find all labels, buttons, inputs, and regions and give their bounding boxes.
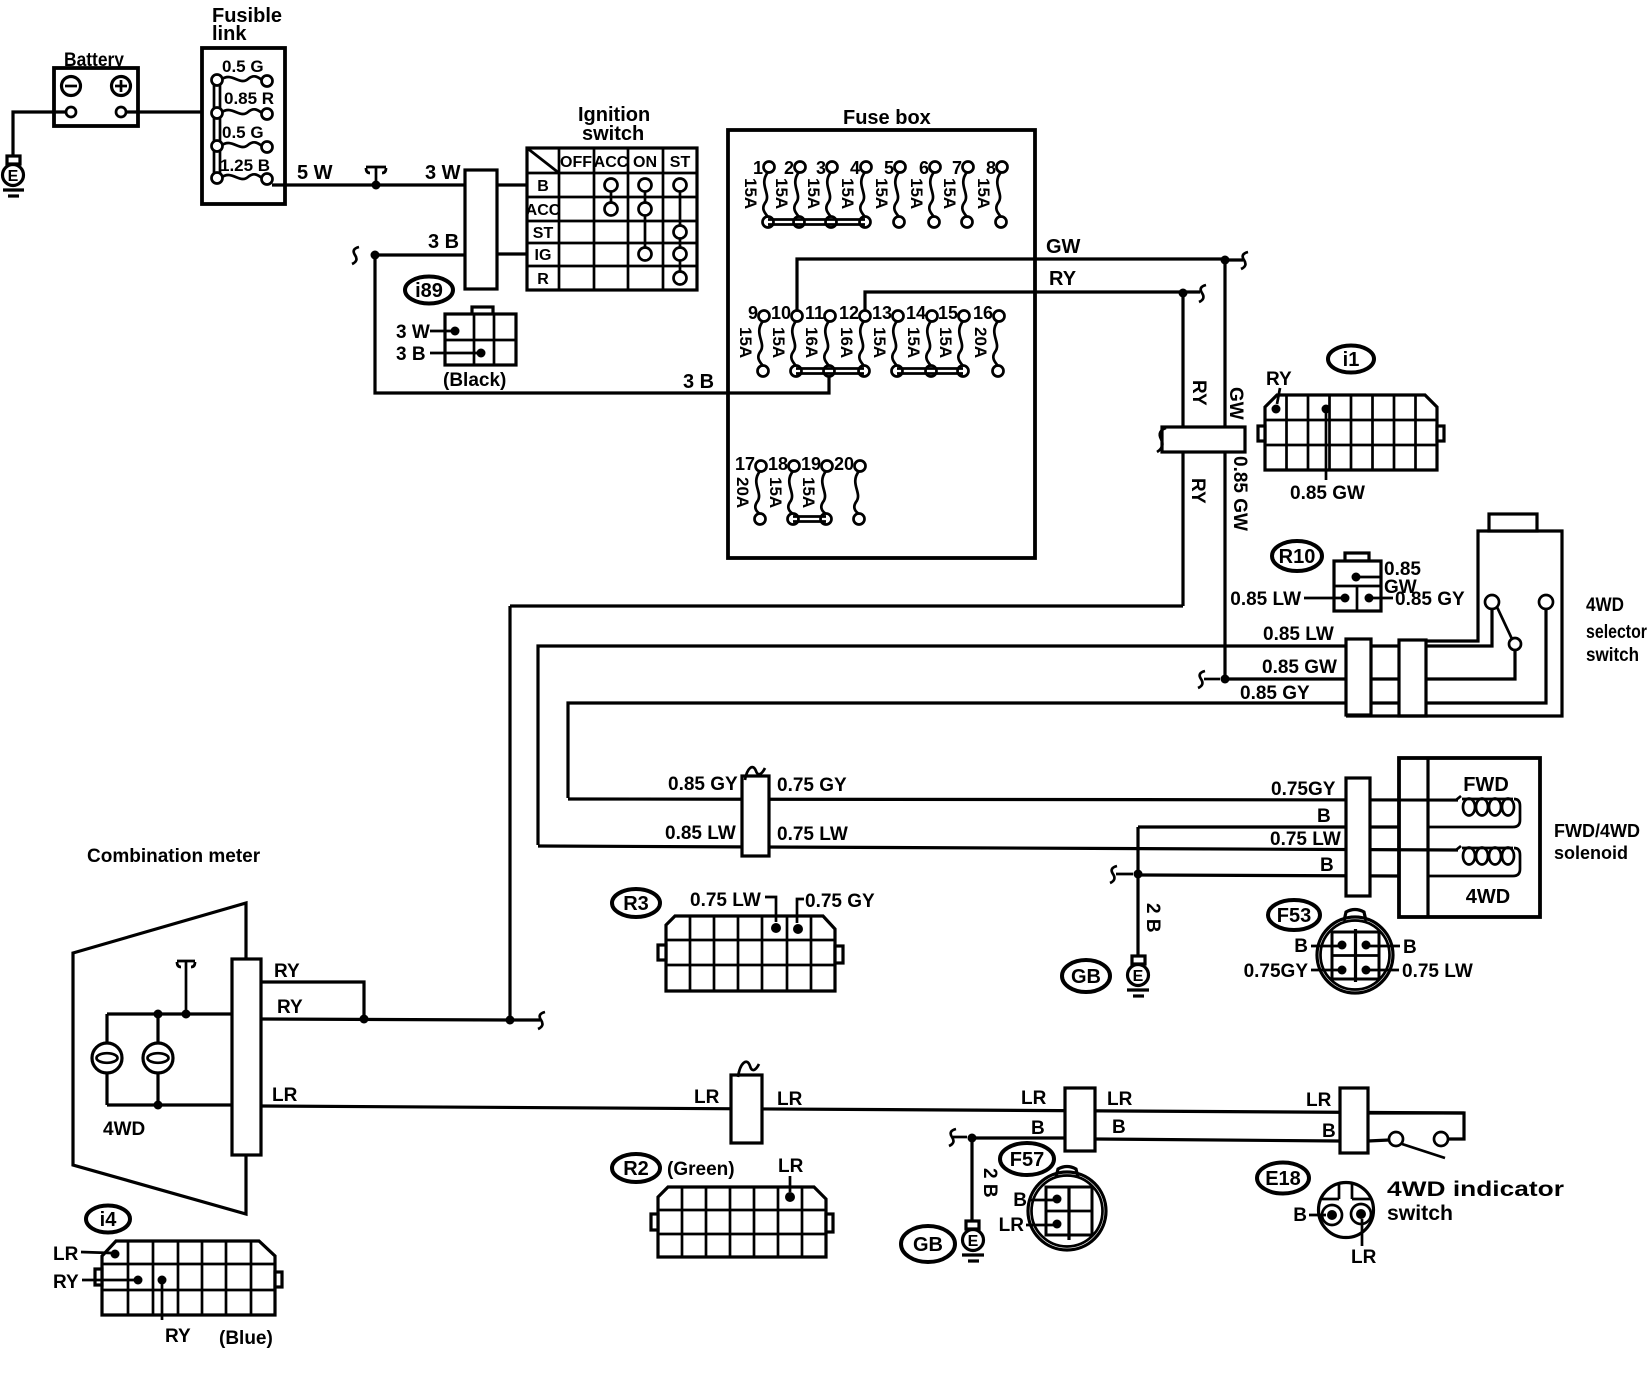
battery (54, 50, 138, 126)
svg-text:11: 11 (805, 303, 824, 323)
fuse 11 16A (802, 303, 836, 377)
ignition switch ACC-position contact chain (605, 179, 618, 216)
meter lamp top feed wire (107, 1012, 232, 1015)
FWD/4WD solenoid body (1399, 758, 1540, 917)
svg-text:R: R (537, 271, 549, 288)
svg-text:link: link (212, 23, 247, 45)
svg-text:GB: GB (913, 1234, 943, 1256)
4WD indicator lamp 2 (143, 1010, 173, 1110)
svg-text:15A: 15A (766, 477, 785, 508)
in-line connector on solenoid wires (1346, 778, 1370, 896)
in-line connector on LR wire (731, 1062, 762, 1143)
svg-text:i89: i89 (415, 280, 443, 302)
fuse 14 15A (904, 303, 938, 377)
svg-text:0.85 LW: 0.85 LW (1230, 589, 1301, 610)
wire LR from E18 connector to indicator switch (1368, 1113, 1464, 1139)
svg-text:(Blue): (Blue) (219, 1328, 273, 1349)
E18 pin B (1293, 1205, 1337, 1226)
in-line connector on LR/B wires (E18 area) (1340, 1088, 1368, 1153)
fuse 17 20A (733, 454, 767, 525)
wire RY from fuse 12 to right side (865, 292, 1183, 311)
svg-text:20A: 20A (971, 327, 990, 358)
svg-text:ST: ST (670, 154, 691, 171)
svg-text:4WD: 4WD (103, 1119, 145, 1140)
svg-text:ACC: ACC (594, 154, 629, 171)
node: RY corner junction (1179, 289, 1188, 298)
node: B ground junction with splice mark (1110, 866, 1143, 883)
svg-text:15A: 15A (804, 178, 823, 209)
svg-text:0.85 GY: 0.85 GY (668, 774, 738, 795)
svg-text:R10: R10 (1279, 546, 1316, 568)
svg-text:16A: 16A (802, 327, 821, 358)
wire GW from fuse 10 to right side (797, 259, 1225, 311)
svg-text:2: 2 (784, 158, 794, 178)
svg-text:FWD/4WD: FWD/4WD (1554, 821, 1640, 841)
connector R2 (612, 1154, 660, 1182)
F57 connector face (1028, 1167, 1106, 1251)
svg-text:14: 14 (906, 303, 926, 323)
svg-text:OFF: OFF (560, 154, 592, 171)
svg-text:R2: R2 (623, 1158, 649, 1180)
i1 pin RY (1266, 369, 1292, 414)
svg-text:20A: 20A (733, 477, 752, 508)
FWD solenoid coil (1428, 796, 1520, 827)
meter connector bar (232, 959, 261, 1155)
svg-text:0.85 GY: 0.85 GY (1240, 683, 1310, 704)
svg-text:B: B (1322, 1121, 1336, 1142)
R2 connector grid (651, 1187, 833, 1257)
F53 connector face (1317, 910, 1393, 994)
svg-text:i1: i1 (1343, 349, 1360, 371)
svg-text:FWD: FWD (1463, 774, 1509, 796)
wire B (lower solenoid return) (1138, 875, 1399, 876)
svg-text:solenoid: solenoid (1554, 843, 1628, 863)
fuse 20 (834, 454, 866, 525)
T-tap symbol on 5W/3W wire (366, 167, 386, 190)
svg-text:R3: R3 (623, 893, 649, 915)
svg-text:8: 8 (986, 158, 996, 178)
svg-text:LR: LR (778, 1156, 804, 1177)
ignition switch ON-position contact chain (639, 179, 652, 261)
connector R10 (1272, 541, 1381, 611)
in-line connector on LR/B wires (F57 area) (1065, 1088, 1095, 1151)
svg-text:13: 13 (872, 303, 892, 323)
i4 pin LR (53, 1244, 120, 1265)
wire 3B long run to fuse box (375, 255, 829, 393)
connector GB (F57 ground) (901, 1226, 955, 1262)
svg-text:ST: ST (533, 225, 554, 242)
fuse 19 15A (799, 454, 833, 525)
4WD indicator switch lever (1402, 1144, 1445, 1158)
svg-text:B: B (1112, 1117, 1126, 1138)
svg-text:E: E (8, 168, 19, 185)
svg-text:15A: 15A (838, 178, 857, 209)
wire: battery positive to fusible link (126, 110, 213, 113)
4WD selector switch fixed contact (GY side) (1539, 595, 1553, 609)
svg-text:19: 19 (801, 454, 821, 474)
ground E (F57 2B) (962, 1221, 984, 1261)
svg-text:0.75 LW: 0.75 LW (690, 890, 761, 911)
4WD selector switch lever (1497, 607, 1521, 650)
svg-text:B: B (1317, 806, 1331, 827)
svg-text:1.25 B: 1.25 B (220, 156, 270, 175)
F53 pin 0.75LW (lower right) (1362, 961, 1473, 982)
R3 connector grid (658, 916, 843, 991)
connector i1 grid (1258, 395, 1444, 470)
svg-text:ON: ON (633, 154, 657, 171)
fuse 1 15A (741, 158, 775, 228)
wire: connector to table row B (497, 183, 527, 186)
node: 3B branch junction with splice mark (352, 247, 380, 264)
svg-text:3: 3 (816, 158, 826, 178)
svg-text:0.75 GY: 0.75 GY (805, 891, 875, 912)
fuse 6 15A (907, 158, 941, 228)
svg-text:ACC: ACC (526, 202, 561, 219)
wire RY horizontal run to combination meter side (510, 604, 1183, 607)
connector i1 (1328, 346, 1374, 373)
fusible link fuse 0.5G (second) (212, 141, 273, 153)
fuse 4 15A (838, 158, 872, 228)
fuse 16 20A (971, 303, 1005, 377)
R10 pin 0.85GY (1365, 589, 1466, 610)
svg-text:LR: LR (1306, 1090, 1332, 1111)
4WD indicator switch contact (B side) (1389, 1132, 1403, 1146)
label 4WD selector switch (1586, 595, 1648, 666)
svg-text:10: 10 (771, 303, 791, 323)
svg-text:7: 7 (952, 158, 962, 178)
E18 connector face (1319, 1183, 1374, 1238)
svg-text:15: 15 (938, 303, 958, 323)
svg-text:switch: switch (1586, 645, 1639, 666)
svg-text:9: 9 (748, 303, 758, 323)
svg-text:0.85 GW: 0.85 GW (1290, 483, 1365, 504)
fusible link fuse 0.85R (212, 108, 273, 120)
i1 pin 0.85GW (1290, 405, 1365, 505)
svg-text:RY: RY (1049, 268, 1077, 290)
svg-text:selector: selector (1586, 622, 1648, 643)
svg-text:switch: switch (1387, 1202, 1453, 1225)
label 4WD indicator switch (1387, 1178, 1564, 1225)
in-line connector pair on selector wires (bar 1) (1346, 639, 1371, 715)
wire GW (0.85GW) vertical drop (1223, 260, 1226, 679)
svg-text:Fuse box: Fuse box (843, 107, 931, 129)
node: RY junction (branch) (360, 1015, 369, 1024)
fusible link (202, 5, 285, 204)
svg-text:0.85 LW: 0.85 LW (665, 823, 736, 844)
ignition switch connector bar (465, 170, 497, 289)
svg-text:GW: GW (1225, 387, 1246, 420)
wire 0.85GW from junction to selector switch lever (1225, 650, 1515, 679)
fuse 15 15A (936, 303, 970, 377)
ground E (solenoid 2B) (1127, 956, 1149, 996)
svg-text:LR: LR (53, 1244, 79, 1265)
connector R3 (612, 889, 660, 917)
svg-text:switch: switch (582, 123, 644, 145)
svg-text:5: 5 (884, 158, 894, 178)
wire RY short stub with splice mark (1183, 285, 1206, 302)
R3 pin 0.75GY (793, 891, 875, 934)
in-line connector (0.85/0.75 splice) (742, 767, 769, 856)
svg-text:F53: F53 (1277, 905, 1311, 927)
F53 pin 0.75GY (lower left) (1244, 961, 1347, 982)
meter lamp bottom wire (107, 1103, 232, 1106)
fuse 18 15A (766, 454, 800, 525)
bus: fuses 10-12 lower terminals (796, 369, 864, 374)
fuse 3 15A (804, 158, 838, 228)
svg-text:3 W: 3 W (396, 322, 430, 343)
fuse 8 15A (974, 158, 1008, 228)
bus: fuses 18-19 lower terminals (793, 517, 826, 522)
svg-text:4WD: 4WD (1586, 595, 1624, 616)
svg-text:E18: E18 (1265, 1168, 1301, 1190)
svg-text:4WD: 4WD (1466, 886, 1510, 908)
node: GW corner junction (1221, 256, 1230, 265)
svg-text:(Black): (Black) (443, 370, 506, 391)
svg-text:0.75 LW: 0.75 LW (1270, 829, 1341, 850)
fuse 5 15A (872, 158, 906, 228)
wire B from E18 connector to indicator switch (1368, 1140, 1389, 1141)
svg-text:15A: 15A (769, 327, 788, 358)
fusible link fuse 0.5G (212, 75, 273, 87)
svg-text:LR: LR (999, 1215, 1025, 1236)
svg-text:0.85 GY: 0.85 GY (1395, 589, 1465, 610)
R10 pin 0.85GW (1352, 559, 1422, 598)
svg-text:RY: RY (274, 961, 300, 982)
wire GW short stub with splice mark (1225, 252, 1248, 269)
wire 2B to ground (970, 1138, 973, 1221)
fusible link fuse 1.25B (212, 173, 273, 185)
F57 pin B (1013, 1190, 1061, 1211)
svg-text:15A: 15A (799, 477, 818, 508)
svg-text:4WD indicator: 4WD indicator (1387, 1178, 1564, 1201)
svg-text:16: 16 (973, 303, 993, 323)
label FWD/4WD solenoid (1554, 821, 1640, 863)
connector E18 (1257, 1163, 1309, 1194)
svg-text:GB: GB (1071, 966, 1101, 988)
in-line connector pair on selector wires (bar 2) (1399, 640, 1426, 716)
connector i4 (86, 1206, 130, 1233)
svg-text:15A: 15A (974, 178, 993, 209)
svg-text:0.75 LW: 0.75 LW (777, 824, 848, 845)
svg-text:15A: 15A (907, 178, 926, 209)
fuse 13 15A (870, 303, 904, 377)
fuse 2 15A (772, 158, 806, 228)
svg-text:IG: IG (535, 247, 552, 264)
fuse 7 15A (940, 158, 974, 228)
svg-text:3 W: 3 W (425, 162, 461, 184)
svg-text:RY: RY (1187, 478, 1208, 504)
svg-text:B: B (1403, 937, 1417, 958)
F57 pin LR (999, 1215, 1062, 1236)
svg-text:15A: 15A (940, 178, 959, 209)
svg-text:6: 6 (919, 158, 929, 178)
4WD solenoid coil (1428, 846, 1520, 876)
svg-text:1: 1 (753, 158, 763, 178)
4WD selector switch fixed contact (LW side) (1485, 595, 1499, 609)
svg-text:B: B (537, 178, 549, 195)
svg-text:5 W: 5 W (297, 162, 333, 184)
svg-text:LR: LR (1021, 1088, 1047, 1109)
E18 pin LR (1351, 1209, 1377, 1268)
svg-text:2 B: 2 B (1142, 903, 1163, 933)
svg-text:B: B (1013, 1190, 1027, 1211)
svg-text:B: B (1293, 1205, 1307, 1226)
svg-text:0.5 G: 0.5 G (222, 57, 264, 76)
svg-text:0.5 G: 0.5 G (222, 123, 264, 142)
R2 pin LR (778, 1156, 804, 1202)
wire 3B stub to ignition connector (375, 253, 465, 256)
svg-text:15A: 15A (772, 178, 791, 209)
connector F53 (1268, 900, 1320, 930)
svg-text:LR: LR (1351, 1247, 1377, 1268)
svg-text:LR: LR (272, 1085, 298, 1106)
svg-text:B: B (1031, 1118, 1045, 1139)
svg-text:15A: 15A (736, 327, 755, 358)
svg-text:i4: i4 (100, 1209, 118, 1231)
fuse 10 15A (769, 303, 803, 377)
T-tap symbol above meter (177, 961, 195, 1019)
svg-text:0.75 GY: 0.75 GY (777, 775, 847, 796)
4WD selector switch body (1346, 514, 1562, 716)
svg-text:Combination meter: Combination meter (87, 846, 261, 867)
svg-text:4: 4 (850, 158, 860, 178)
svg-text:LR: LR (1107, 1089, 1133, 1110)
wire: connector to table row IG (497, 252, 527, 255)
svg-text:0.85 GW: 0.85 GW (1229, 456, 1250, 531)
wire 0.85LW / 0.75LW horizontal run to solenoid (538, 846, 1458, 850)
wire B to F57 connector (972, 1136, 1065, 1139)
node: B branch junction (F57) with splice mark (949, 1129, 977, 1146)
wire 5W / 3W from fusible link to ignition switch connector (272, 183, 465, 186)
in-line connector on RY/GW wires (1157, 427, 1245, 452)
svg-text:LR: LR (777, 1089, 803, 1110)
svg-text:RY: RY (1266, 369, 1292, 390)
connector i89 (396, 277, 516, 392)
svg-text:E: E (1133, 968, 1144, 985)
wire B vertical to ground junction (1136, 827, 1139, 956)
svg-text:3 B: 3 B (428, 231, 459, 253)
bus: fuses 1-4 lower terminals (768, 220, 865, 225)
svg-text:RY: RY (53, 1272, 79, 1293)
svg-text:LR: LR (694, 1087, 720, 1108)
wire: battery negative to ground E (13, 112, 66, 156)
svg-text:RY: RY (277, 997, 303, 1018)
svg-text:20: 20 (834, 454, 854, 474)
F53 pin B (upper left) (1294, 936, 1346, 957)
connector F57 (1000, 1143, 1054, 1175)
svg-text:(Green): (Green) (667, 1159, 735, 1180)
i4 connector grid (95, 1241, 282, 1315)
combination meter (73, 846, 261, 1214)
svg-text:0.85 LW: 0.85 LW (1263, 624, 1334, 645)
svg-text:E: E (968, 1233, 979, 1250)
svg-text:15A: 15A (936, 327, 955, 358)
fuse 9 15A (736, 303, 770, 377)
svg-text:15A: 15A (741, 178, 760, 209)
F53 pin B (upper right) (1362, 937, 1417, 958)
i4 pin RY (first) (53, 1272, 143, 1293)
svg-text:15A: 15A (872, 178, 891, 209)
svg-text:18: 18 (768, 454, 788, 474)
svg-text:0.75 LW: 0.75 LW (1402, 961, 1473, 982)
node: RY junction to vertical with splice mark (506, 1012, 546, 1029)
svg-text:2 B: 2 B (979, 1168, 1000, 1198)
svg-text:0.85 GW: 0.85 GW (1262, 657, 1337, 678)
bus: fuses 13-15 lower terminals (897, 369, 963, 374)
node: 0.85GW junction with splice mark (1198, 671, 1230, 688)
svg-text:B: B (1294, 936, 1308, 957)
R3 pin 0.75LW (690, 890, 781, 933)
wire RY (meter lower) to main RY (261, 1019, 510, 1020)
svg-text:F57: F57 (1010, 1149, 1044, 1171)
ground E (battery) (3, 156, 25, 196)
svg-text:0.75GY: 0.75GY (1271, 779, 1336, 800)
4WD indicator lamp 1 (92, 1014, 122, 1105)
svg-text:RY: RY (1188, 380, 1209, 406)
svg-text:0.75GY: 0.75GY (1244, 961, 1309, 982)
svg-text:17: 17 (735, 454, 755, 474)
svg-text:16A: 16A (837, 327, 856, 358)
svg-text:GW: GW (1046, 236, 1081, 258)
wire RY vertical down left side (508, 606, 511, 1020)
svg-text:15A: 15A (904, 327, 923, 358)
wire LR from meter to indicator switch (261, 1106, 1464, 1113)
R10 pin 0.85LW (1230, 589, 1349, 610)
connector GB (solenoid ground) (1062, 960, 1110, 992)
svg-text:RY: RY (165, 1326, 191, 1347)
ignition switch table (526, 104, 697, 290)
svg-text:15A: 15A (870, 327, 889, 358)
ignition switch ST-position contact chain (674, 179, 687, 285)
svg-text:3 B: 3 B (683, 371, 714, 393)
4WD indicator switch contact (LR side) (1434, 1132, 1448, 1146)
svg-text:12: 12 (839, 303, 859, 323)
svg-text:3 B: 3 B (396, 344, 426, 365)
svg-text:B: B (1320, 855, 1334, 876)
wire 0.85GY loop: corner and run to selector switch (568, 609, 1546, 798)
fuse 12 16A (837, 303, 871, 377)
wire B (upper solenoid return) (1138, 825, 1399, 828)
wire RY (meter upper) (261, 982, 364, 1019)
wire 0.85GY / 0.75GY horizontal run to solenoid (568, 799, 1458, 800)
wire RY vertical drop to in-line connector (1181, 293, 1184, 606)
svg-text:0.85 R: 0.85 R (224, 89, 274, 108)
wire 0.85LW loop: corner and run to selector switch (538, 609, 1492, 845)
i4 pin RY (second) (158, 1276, 192, 1348)
wire B from F57 connector to E18 connector (1095, 1139, 1340, 1141)
